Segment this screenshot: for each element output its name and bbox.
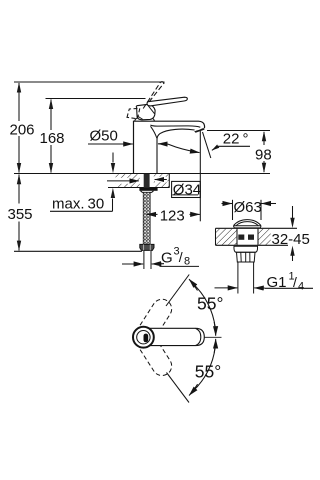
hose end tube bbox=[144, 250, 151, 269]
svg-text:Ø63: Ø63 bbox=[234, 199, 262, 216]
55° arc top bbox=[192, 283, 215, 328]
centerline right of capsule bbox=[204, 336, 221, 338]
55° rays bbox=[166, 275, 189, 307]
countertop slab (left) hatched bbox=[106, 174, 170, 188]
wire countertop baseline bbox=[14, 173, 270, 175]
raised lever tip cap bbox=[160, 82, 164, 84]
spout inner top line bbox=[150, 125, 200, 127]
aerator dark nub bbox=[194, 128, 204, 133]
55° arc bottom bbox=[192, 347, 215, 392]
dimension 355 bbox=[17, 174, 21, 251]
drain hex nut bbox=[237, 252, 256, 262]
counter slab (right) bbox=[216, 228, 298, 245]
stream 22° slant line bbox=[203, 132, 211, 158]
svg-text:/: / bbox=[179, 249, 183, 265]
wire 355 bottom line bbox=[14, 250, 142, 252]
handle capsule (solid) bbox=[143, 328, 204, 345]
drain cap dome bbox=[234, 220, 262, 226]
dimension 206 bbox=[17, 82, 21, 173]
drain flange washer below slab bbox=[234, 246, 258, 252]
braided hose bbox=[143, 192, 150, 244]
svg-text:123: 123 bbox=[160, 207, 185, 224]
svg-text:/: / bbox=[293, 274, 297, 290]
svg-text:55°: 55° bbox=[197, 294, 223, 314]
dashed handle rotated down bbox=[140, 338, 172, 375]
dimension 98 bbox=[262, 131, 266, 173]
svg-text:Ø50: Ø50 bbox=[90, 128, 118, 145]
spout underside bbox=[157, 129, 195, 173]
pivot mark bbox=[144, 334, 149, 343]
wire spout-level line 98 bbox=[207, 130, 270, 132]
handle lever blade bbox=[147, 97, 187, 106]
handle grip (solid) bbox=[136, 104, 155, 120]
svg-text:4: 4 bbox=[298, 281, 304, 293]
label G1 1/4 with arrows bbox=[267, 271, 305, 293]
drain neck in hole bbox=[237, 228, 258, 245]
svg-text:8: 8 bbox=[184, 256, 190, 268]
svg-text:168: 168 bbox=[40, 130, 65, 147]
wire counter bottom line bbox=[108, 187, 170, 189]
svg-text:55°: 55° bbox=[195, 362, 221, 382]
svg-text:98: 98 bbox=[255, 147, 272, 164]
pivot circle bbox=[133, 327, 154, 348]
inner end contour bbox=[196, 328, 201, 345]
spout crease line bbox=[151, 126, 158, 138]
dashed handle rotated up bbox=[140, 299, 172, 336]
mounting flange washer bbox=[139, 188, 157, 191]
hose hex fitting bbox=[140, 244, 154, 250]
wire top reference line 206 bbox=[14, 81, 165, 83]
drain tailpiece tube bbox=[238, 262, 254, 294]
wire reference line 168 bbox=[46, 98, 146, 100]
svg-text:22 °: 22 ° bbox=[223, 131, 249, 148]
svg-text:355: 355 bbox=[8, 206, 33, 223]
faucet body outline bbox=[134, 121, 205, 173]
dashed raised lever bbox=[143, 82, 164, 109]
svg-text:206: 206 bbox=[10, 122, 35, 139]
cartridge dome under grip bbox=[135, 117, 155, 121]
label G 3/8 with arrows bbox=[161, 246, 190, 268]
threaded shank through counter bbox=[144, 174, 150, 188]
svg-text:Ø34: Ø34 bbox=[173, 181, 201, 198]
svg-text:max. 30: max. 30 bbox=[52, 196, 104, 213]
dashed raised grip bbox=[127, 108, 140, 119]
water stream vertical line bbox=[199, 131, 201, 221]
dimension 168 bbox=[49, 99, 53, 173]
svg-text:32-45: 32-45 bbox=[272, 231, 310, 248]
